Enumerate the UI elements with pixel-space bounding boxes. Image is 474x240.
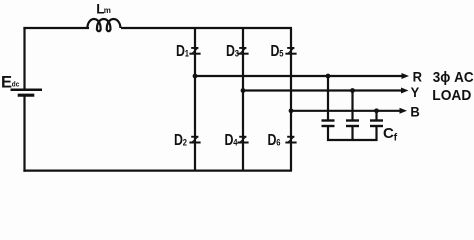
svg-text:C: C bbox=[383, 125, 394, 142]
node cap3 tap bbox=[374, 108, 379, 113]
diode D3 bbox=[237, 47, 248, 55]
svg-text:5: 5 bbox=[279, 48, 283, 59]
svg-text:m: m bbox=[104, 6, 111, 15]
wire bridge leg 2 bbox=[242, 28, 244, 171]
arrow phase R bbox=[402, 73, 410, 79]
node R junction bbox=[193, 74, 198, 79]
capacitor C1 plates bbox=[322, 121, 335, 127]
svg-text:R: R bbox=[413, 69, 423, 85]
wire left vertical bottom bbox=[23, 97, 25, 172]
arrow phase B bbox=[400, 108, 408, 114]
wire bottom rail bbox=[23, 170, 292, 172]
wire left vertical top bbox=[23, 27, 25, 89]
node Y junction bbox=[241, 88, 246, 93]
battery Edc bbox=[11, 90, 43, 95]
node cap2 tap bbox=[350, 88, 355, 93]
wire bridge leg 3 bbox=[290, 28, 292, 171]
svg-text:D: D bbox=[176, 42, 185, 60]
wire capacitor stub 1 bbox=[327, 127, 329, 141]
wire phase R bbox=[195, 75, 402, 77]
svg-text:D: D bbox=[268, 131, 277, 149]
wire capacitor stub 2 bbox=[351, 127, 353, 141]
diode D1 bbox=[189, 47, 200, 55]
svg-text:D: D bbox=[226, 42, 235, 60]
wire bridge leg 1 bbox=[194, 28, 196, 171]
wire capacitor branch 1 bbox=[327, 76, 329, 120]
svg-text:D: D bbox=[225, 131, 234, 149]
wire phase B bbox=[291, 110, 400, 112]
wire phase Y bbox=[243, 89, 402, 91]
svg-text:3: 3 bbox=[235, 48, 239, 59]
wire top rail right bbox=[121, 27, 292, 29]
svg-text:f: f bbox=[394, 131, 398, 143]
wire top rail left bbox=[23, 27, 89, 29]
svg-text:dc: dc bbox=[12, 81, 20, 88]
diode D4 bbox=[237, 136, 248, 144]
svg-text:E: E bbox=[1, 74, 12, 92]
arrow phase Y bbox=[401, 88, 409, 94]
svg-text:1: 1 bbox=[185, 48, 189, 59]
diode D5 bbox=[285, 47, 296, 55]
node B junction bbox=[289, 108, 294, 113]
capacitor C2 plates bbox=[346, 121, 359, 127]
diode D2 bbox=[189, 136, 200, 144]
wire capacitor branch 2 bbox=[351, 91, 353, 120]
svg-text:Y: Y bbox=[411, 85, 420, 101]
svg-text:LOAD: LOAD bbox=[432, 87, 471, 103]
capacitor Cf plates bbox=[370, 121, 383, 127]
wire capacitor branch 3 bbox=[375, 111, 377, 120]
diode D6 bbox=[285, 136, 296, 144]
node cap1 tap bbox=[326, 74, 331, 79]
svg-text:2: 2 bbox=[183, 137, 187, 148]
svg-text:6: 6 bbox=[276, 137, 280, 148]
wire capacitor stub 3 bbox=[375, 127, 377, 141]
svg-text:4: 4 bbox=[233, 137, 237, 148]
svg-text:B: B bbox=[410, 104, 420, 120]
svg-text:D: D bbox=[174, 131, 183, 149]
wire capacitor bus bbox=[327, 139, 378, 141]
inductor Lm bbox=[87, 19, 120, 31]
svg-text:D: D bbox=[271, 42, 280, 60]
svg-text:3ϕ AC: 3ϕ AC bbox=[433, 68, 474, 85]
